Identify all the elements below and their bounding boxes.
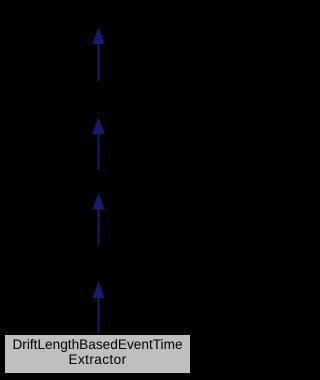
node DriftLengthBasedEventTimeExtractor (current class box) <box>4 334 191 374</box>
inheritance arrow 2 <box>92 117 104 169</box>
inheritance arrow 4 (bottom) <box>92 282 104 334</box>
inheritance arrow 1 (top) <box>92 28 104 81</box>
inheritance arrow 3 <box>92 193 104 245</box>
